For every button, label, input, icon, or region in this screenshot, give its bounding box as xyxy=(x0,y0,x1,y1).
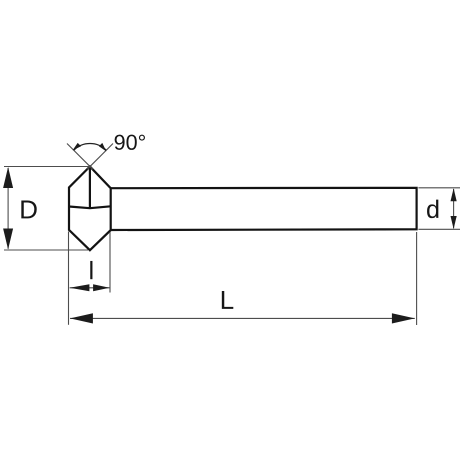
shank body xyxy=(111,188,417,230)
arrowhead L right xyxy=(392,313,415,323)
angle construction line left xyxy=(67,144,93,170)
extension line L right xyxy=(416,232,418,325)
arrowhead d up xyxy=(451,188,457,201)
dimension line l xyxy=(70,287,110,289)
arc arrowhead left xyxy=(71,143,81,153)
dimension line L xyxy=(70,317,415,319)
arrowhead D up xyxy=(3,167,13,188)
center flute edge vertical line xyxy=(89,167,91,209)
arrowhead D down xyxy=(3,229,13,250)
arrowhead d down xyxy=(451,216,457,229)
extension line D top xyxy=(4,166,90,168)
angle arc xyxy=(74,144,107,151)
arrowhead l right xyxy=(93,284,109,291)
countersink head outline xyxy=(69,167,111,251)
extension line l left xyxy=(68,232,70,325)
label L xyxy=(222,291,233,309)
angle construction line right xyxy=(87,144,113,170)
arrowhead l left xyxy=(70,284,90,291)
extension line D bottom xyxy=(4,249,88,251)
arrowhead L left xyxy=(70,313,93,323)
extension line d top xyxy=(418,187,460,189)
label d xyxy=(427,200,438,219)
extension line d bottom xyxy=(418,228,460,230)
dimension line d xyxy=(453,189,455,228)
extension line l right xyxy=(109,232,111,293)
label l xyxy=(90,261,92,279)
arc arrowhead right xyxy=(99,143,109,153)
cutting lip mid line (shallow V) xyxy=(69,206,111,208)
dimension line D xyxy=(7,168,9,249)
label 90 degrees xyxy=(115,135,145,150)
label D xyxy=(21,201,36,219)
